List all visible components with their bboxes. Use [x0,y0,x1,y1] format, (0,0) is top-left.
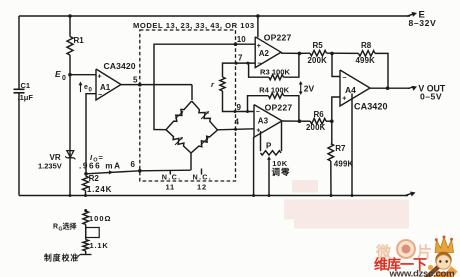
label calibration [44,253,79,263]
svg-text:R8: R8 [361,41,372,50]
resistor R3 100K [246,53,299,79]
resistor R5 200K [299,41,327,65]
wire left branch [18,16,20,89]
wire R1 to node E0 [69,55,71,75]
svg-text:r: r [211,80,215,89]
watermark mascot [424,236,458,277]
jumper box [86,225,100,240]
svg-text:e: e [84,84,88,91]
source e0 arrow [79,82,93,94]
svg-text:+: + [342,96,346,103]
svg-text:制度校准: 制度校准 [44,253,79,263]
ground symbol [77,251,92,258]
svg-text:.966 mA: .966 mA [79,161,122,170]
arrow to E supply [407,12,417,17]
pin 11 N.C. [162,171,182,192]
svg-text:−: − [257,60,261,67]
op-amp A4 CA3420 [340,70,388,112]
node E0 [55,69,72,82]
svg-text:OP227: OP227 [264,32,292,42]
svg-text:C1: C1 [21,81,31,90]
svg-text:499K: 499K [356,56,376,65]
zener diode VR 1.235V [38,151,75,171]
svg-text:OP227: OP227 [265,103,293,113]
wire VR to ground rail [69,158,72,197]
wire R8 to output [375,53,388,88]
svg-text:0: 0 [89,88,93,94]
wire A2 power from rail [256,14,260,37]
highlight rectangle [292,180,318,193]
svg-text:0: 0 [62,75,66,82]
resistor r gauge [211,77,225,91]
resistor R1 [67,36,84,55]
wire A3 ground pin [252,137,255,197]
wire A4 non-inverting branch [332,97,340,121]
2V marker [299,81,315,95]
wire pin 10 net [154,35,255,130]
bridge gauge bottom-right [191,130,218,153]
capacitor C1 [14,81,34,102]
svg-text:CA3420: CA3420 [354,102,388,112]
wire E0 to VR [69,75,71,158]
svg-text:5: 5 [133,75,138,84]
svg-text:200K: 200K [308,56,328,65]
bridge gauge top-left [166,101,192,130]
label VOUT 0-5V [418,83,446,101]
label E 8-32V [409,9,437,28]
svg-text:10: 10 [237,35,246,44]
svg-text:MODEL 13, 23, 33, 43, OR 103: MODEL 13, 23, 33, 43, OR 103 [133,21,255,30]
svg-text:P: P [266,141,272,150]
resistor R7 499K [328,121,354,168]
svg-text:200K: 200K [306,123,326,132]
wire ground return rail [19,195,408,197]
op-amp A2 OP227 [255,32,291,67]
resistor 1.1K [83,240,109,252]
svg-text:R4 100K: R4 100K [259,85,289,94]
svg-text:−: − [342,75,346,82]
resistor R2 [83,174,113,194]
wire R6 to branch [326,119,334,123]
wire r to pin 9 [223,91,255,113]
wire A4 ground pin [351,93,354,197]
svg-text:−: − [98,92,102,99]
node RG top [84,209,87,212]
svg-text:4: 4 [235,118,240,127]
arrow VOUT [408,86,417,91]
wire A3 tip to pot right [281,121,283,151]
bridge gauge bottom-left [166,130,191,153]
svg-text:CA3420: CA3420 [104,61,136,71]
svg-text:+: + [256,128,260,135]
wire +V top rail [19,15,410,17]
wire bridge bottom to Io [190,153,192,170]
svg-text:7: 7 [238,53,243,62]
svg-text:R: R [53,224,58,231]
svg-text:E: E [55,69,61,79]
pin 12 N.C. [193,169,213,192]
svg-text:A2: A2 [259,49,270,58]
resistor R4 100K [246,85,299,121]
svg-text:A3: A3 [258,117,269,126]
op-amp A1 CA3420 [96,61,136,100]
pin 6 label [131,160,136,169]
label MODEL 13 23 33 43 OR 103 [133,21,255,30]
svg-text:调零: 调零 [272,167,291,177]
svg-text:A1: A1 [100,83,111,92]
watermark faded logo [375,240,432,261]
svg-text:R2: R2 [89,174,100,183]
pin 4 wire [218,118,255,131]
svg-text:8–32V: 8–32V [409,18,437,28]
wire to bridge top [191,85,193,100]
wire C1 to ground rail [18,93,20,196]
svg-text:R5: R5 [313,41,324,50]
svg-text:499K: 499K [334,159,354,168]
bridge gauge top-right [192,101,218,130]
label 10K tiaoling [272,159,291,177]
highlight rectangle [284,200,295,220]
svg-text:6: 6 [131,160,136,169]
wire Io current path [84,170,190,175]
svg-text:1.1K: 1.1K [90,241,109,250]
svg-text:+: + [257,43,261,50]
wire R2 to rail [84,191,87,198]
svg-text:1.24K: 1.24K [87,185,112,194]
wire A4 output [370,86,410,90]
resistor 100 ohm [83,211,112,225]
watermark url [389,269,455,277]
svg-text:www.dzsc.com: www.dzsc.com [389,269,455,277]
wire R5 to junction [327,52,359,56]
wire A2 output [281,52,301,56]
highlight rectangle [294,200,409,229]
svg-text:R3 100K: R3 100K [260,68,290,77]
svg-text:+: + [98,74,102,81]
svg-text:0–5V: 0–5V [420,92,442,102]
svg-text:R7: R7 [335,144,346,153]
wire rail to R1 [68,14,72,36]
svg-text:1.235V: 1.235V [38,162,62,171]
label Io=.966mA [79,153,122,170]
resistor R8 499K [356,41,376,65]
svg-text:100Ω: 100Ω [89,214,112,223]
svg-text:11: 11 [166,182,176,191]
pin 6 junction [138,169,142,173]
dashed box transducer module [140,30,236,181]
svg-text:9: 9 [237,103,242,112]
op-amp A3 OP227 [254,103,292,138]
svg-text:R1: R1 [74,36,85,45]
potentiometer P 10K [261,141,282,155]
svg-text:N.C.: N.C. [193,173,213,182]
wire A4 inverting branch [332,53,340,76]
wire A1 inverting input [86,94,96,174]
svg-text:选择: 选择 [63,222,78,231]
svg-text:−: − [256,109,260,116]
wire pot left up [260,131,262,151]
watermark weiku text [374,257,427,273]
wire A1 output pin 5 [121,75,192,86]
label RG select [53,222,77,233]
wire E0 to A1 [70,74,96,76]
svg-text:.1μF: .1μF [18,93,34,102]
svg-text:N.C.: N.C. [162,173,182,182]
arrow ground rail end [405,192,416,197]
svg-text:A4: A4 [345,85,356,95]
svg-text:R6: R6 [314,110,325,119]
resistor R6 200K [299,110,326,132]
pin 7 wire [223,53,256,77]
pot wiper to ground [267,156,271,197]
svg-text:12: 12 [197,182,207,191]
wire A3 output [282,119,301,123]
wire R7 to rail [330,161,333,197]
svg-text:2V: 2V [304,84,315,94]
